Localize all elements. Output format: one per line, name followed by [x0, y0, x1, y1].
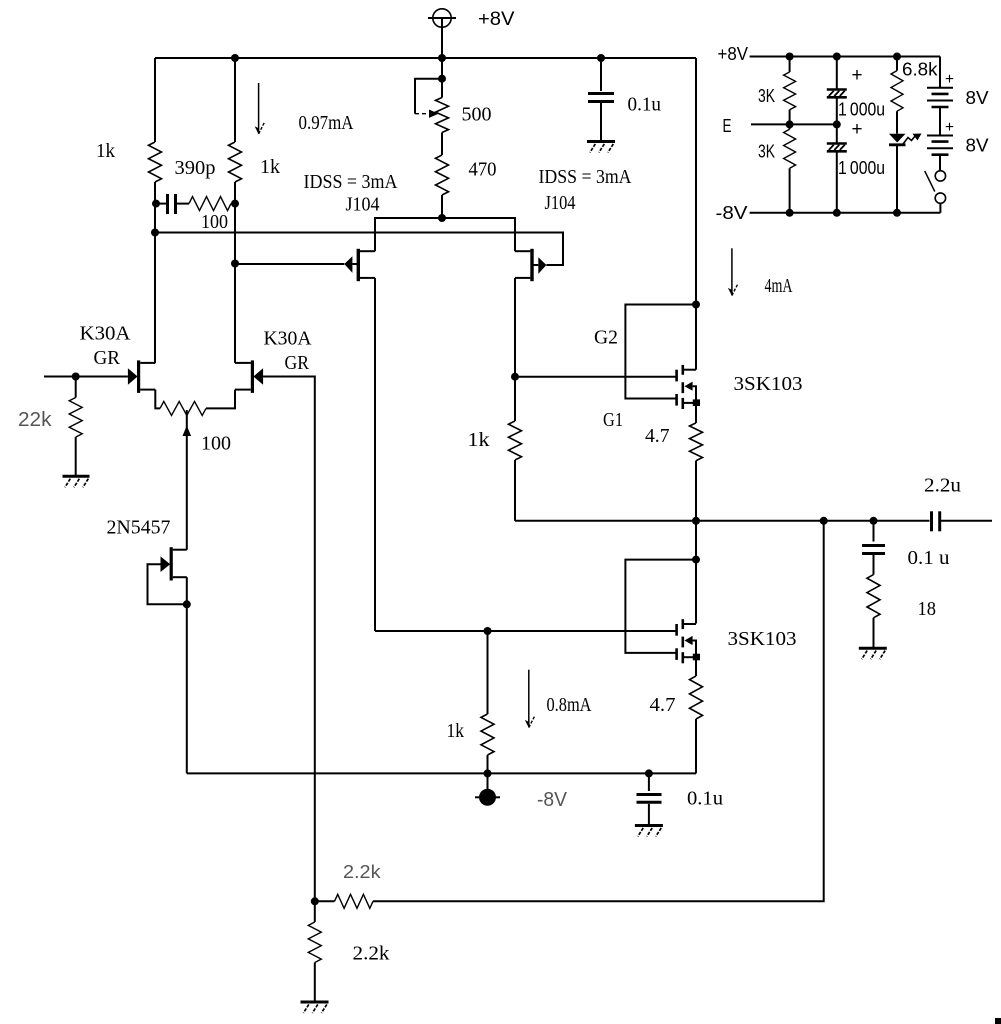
- node lower 3SK103 drain / G2 loop: [692, 556, 700, 564]
- wire pot top lead: [441, 58, 443, 98]
- svg-text:0.1u: 0.1u: [687, 788, 723, 810]
- resistor R 1k (second): [229, 142, 242, 182]
- svg-text:+: +: [945, 119, 954, 136]
- current source arrow (100 center): [183, 410, 192, 550]
- transistor 2N5457: [161, 547, 187, 604]
- wire 2N5457 gate-source tie: [148, 564, 187, 604]
- node right J104 drain / 1k / G1 line: [511, 373, 519, 381]
- wire left K30A source to 100: [155, 390, 160, 409]
- svg-text:18: 18: [918, 598, 937, 620]
- wire 1k R1 top lead: [154, 58, 156, 142]
- svg-text:3K: 3K: [758, 85, 775, 106]
- svg-text:1k: 1k: [447, 720, 465, 742]
- node top rail / 500 pot: [438, 54, 446, 62]
- wire 1k (mid) top lead: [514, 377, 516, 421]
- resistor 2.2k (to ground): [308, 922, 321, 963]
- wire E line: [751, 123, 837, 125]
- svg-text:8V: 8V: [966, 135, 990, 156]
- svg-text:4.7: 4.7: [645, 425, 670, 447]
- wire top rail +8V: [155, 57, 696, 59]
- battery 8V (upper): [927, 87, 953, 89]
- wire output rail: [515, 520, 930, 522]
- wire +8V supply rail: [750, 56, 940, 58]
- svg-text:3SK103: 3SK103: [734, 373, 803, 395]
- ground (2.2k): [301, 1001, 329, 1004]
- wire left column to K30A drain: [154, 233, 156, 363]
- wire 6.8k bottom lead: [896, 111, 898, 134]
- svg-text:1k: 1k: [468, 429, 490, 451]
- wire second column to K30A drain: [234, 264, 236, 363]
- wire 1000u upper bottom lead: [836, 97, 838, 124]
- svg-text:100: 100: [201, 211, 228, 233]
- svg-text:IDSS = 3mA: IDSS = 3mA: [304, 171, 398, 193]
- wire 1000u lower bottom lead: [836, 151, 838, 213]
- wire 0.1u cap top lead: [600, 58, 602, 91]
- node pot wiper loop: [438, 75, 446, 83]
- wire 1000u upper top lead: [836, 57, 838, 90]
- current arrow 0.97mA: [255, 83, 265, 134]
- node -8V rail / 0.1u lower: [645, 769, 653, 777]
- wire 4.7 lower bottom lead: [695, 719, 697, 773]
- svg-text:2.2k: 2.2k: [353, 943, 390, 965]
- node lower G1 line / 1k: [484, 627, 492, 635]
- wire 1k R1 bottom lead: [154, 182, 156, 204]
- wire 22k top lead: [75, 377, 77, 398]
- resistor 100 (series with 390p): [189, 197, 231, 211]
- svg-text:IDSS = 3mA: IDSS = 3mA: [539, 166, 632, 188]
- wire 2.2k gnd top lead: [314, 901, 316, 922]
- node top rail / 0.1u cap: [597, 54, 605, 62]
- wire output node down to lower 3SK103: [695, 521, 697, 624]
- switch (power): [925, 171, 946, 213]
- resistor 100 (source degeneration): [160, 401, 206, 415]
- wire -8V rail: [187, 772, 696, 774]
- wire 100 right lead: [231, 203, 235, 205]
- capacitor 2.2u (output): [932, 511, 993, 531]
- svg-text:0.1u: 0.1u: [628, 94, 662, 116]
- wire 4.7 upper bottom lead: [695, 461, 697, 521]
- svg-text:J104: J104: [545, 192, 576, 214]
- svg-text:K30A: K30A: [80, 323, 132, 345]
- svg-text:GR: GR: [94, 347, 121, 369]
- node 390p cap junction left: [152, 200, 160, 208]
- svg-text:0.8mA: 0.8mA: [547, 694, 592, 716]
- wire left input stub: [44, 376, 128, 378]
- ground (22k): [63, 475, 90, 478]
- node left column / gate line: [151, 229, 159, 237]
- wire between batteries: [939, 107, 941, 136]
- wire source-coupled line: [375, 218, 515, 251]
- resistor 1k (lower): [481, 714, 494, 755]
- capacitor 390p plates: [156, 194, 189, 214]
- svg-text:+: +: [852, 119, 863, 140]
- svg-text:8V: 8V: [966, 87, 990, 108]
- svg-text:0.1 u: 0.1 u: [908, 547, 950, 569]
- transistor J104 (left JFET): [344, 249, 375, 281]
- wire left column: [154, 204, 156, 233]
- wire 18 bottom lead: [873, 618, 875, 648]
- wire G2 loop (lower): [625, 560, 696, 653]
- wire G2 loop (upper): [625, 305, 696, 399]
- node 22k / left gate: [72, 373, 80, 381]
- node E line / 1000u junction: [833, 120, 841, 128]
- node +8V rail / 3K: [786, 53, 794, 61]
- capacitor 1000u (lower): [827, 142, 847, 145]
- svg-text:3K: 3K: [758, 141, 775, 162]
- svg-text:2.2u: 2.2u: [924, 475, 961, 497]
- resistor 4.7 (upper): [690, 423, 703, 461]
- wire 1k R2 top lead: [234, 58, 236, 142]
- svg-text:K30A: K30A: [264, 328, 313, 350]
- svg-text:470: 470: [469, 159, 497, 181]
- power terminal +8V: [428, 9, 456, 58]
- node +8V rail / 6.8k: [893, 53, 901, 61]
- svg-text:J104: J104: [346, 194, 380, 216]
- wire right gate to feedback column: [263, 377, 315, 902]
- node 390p network junction right: [231, 200, 239, 208]
- svg-text:2N5457: 2N5457: [107, 517, 171, 539]
- resistor 3K (upper): [784, 72, 796, 110]
- capacitor 0.1u (top): [588, 94, 614, 142]
- ground (0.1u lower): [635, 824, 663, 827]
- node 470 / source-coupled line: [438, 214, 446, 222]
- terminal -8V: [475, 773, 500, 805]
- wire 470 bottom lead: [441, 195, 443, 218]
- svg-text:E: E: [723, 115, 732, 136]
- wire 3K upper top lead: [789, 57, 791, 73]
- resistor 1k (mid): [509, 421, 522, 460]
- potentiometer 500: [436, 98, 449, 133]
- wire between 500 and 470: [441, 133, 443, 156]
- svg-text:GR: GR: [285, 352, 310, 374]
- node E line / 3K junction: [786, 120, 794, 128]
- wire upper 3SK103 source lead: [695, 403, 697, 423]
- LED indicator: [889, 134, 922, 213]
- svg-text:1k: 1k: [260, 156, 280, 178]
- wire pot wiper loop: [415, 79, 442, 114]
- resistor 470: [436, 155, 449, 195]
- wire 22k bottom lead: [75, 437, 77, 476]
- ground (18 resistor): [859, 647, 887, 650]
- resistor 22k: [69, 398, 82, 438]
- node -8V rail / 3K: [786, 209, 794, 217]
- wire -8V supply rail: [750, 212, 941, 214]
- node 2N5457 source/gate: [183, 600, 191, 608]
- node -8V rail / 1000u: [833, 209, 841, 217]
- resistor 3K (lower): [784, 129, 796, 168]
- svg-text:100: 100: [201, 433, 231, 455]
- wire second column: [234, 204, 236, 264]
- resistor 2.2k (feedback, horizontal): [335, 894, 374, 908]
- svg-text:22k: 22k: [18, 409, 53, 431]
- wire gate crossover line (to right J104): [155, 233, 563, 266]
- svg-text:4.7: 4.7: [650, 694, 676, 716]
- svg-text:1 000u: 1 000u: [838, 157, 885, 178]
- svg-text:-8V: -8V: [716, 202, 749, 223]
- wire G1 line (upper): [515, 376, 676, 378]
- svg-text:0.97mA: 0.97mA: [299, 112, 354, 134]
- node output rail / 4.7 upper: [692, 517, 700, 525]
- wire 0.1u-18 branch top: [873, 521, 875, 542]
- svg-text:3SK103: 3SK103: [728, 628, 797, 650]
- svg-text:390p: 390p: [175, 157, 216, 179]
- ground (0.1u top cap): [587, 140, 615, 143]
- svg-text:+: +: [945, 71, 954, 88]
- svg-text:1k: 1k: [96, 140, 115, 162]
- resistor 6.8k: [891, 71, 903, 112]
- transistor J104 (right JFET): [515, 249, 546, 281]
- wire 6.8k top lead: [896, 57, 898, 71]
- wire 3K upper bottom lead: [789, 110, 791, 125]
- svg-text:G1: G1: [603, 409, 623, 431]
- wire 2.2k feedback lead: [315, 900, 335, 902]
- node top rail / left 1k column: [231, 54, 239, 62]
- wire cascode drain feed: [695, 58, 697, 305]
- resistor R 1k (left): [149, 142, 162, 182]
- current arrow 0.8mA: [525, 670, 535, 728]
- transistor K30A (right JFET): [235, 360, 263, 393]
- wire battery to switch: [939, 155, 941, 171]
- wire 1k mid bottom lead: [514, 460, 516, 521]
- wire 1000u lower top lead: [836, 124, 838, 143]
- node second column / J104 gate line: [231, 260, 239, 268]
- node upper 3SK103 drain / G2 loop: [692, 301, 700, 309]
- svg-text:1 000u: 1 000u: [838, 99, 885, 120]
- capacitor 0.1u (lower): [637, 795, 662, 826]
- wire 1k lower bottom lead: [487, 755, 489, 773]
- capacitor 1000u (upper): [827, 88, 847, 91]
- wire feedback line to output: [373, 521, 824, 902]
- wire battery column top: [939, 57, 941, 88]
- transistor 3SK103 (upper dual-gate MOSFET): [677, 305, 700, 410]
- node output rail / 0.1u-18: [870, 517, 878, 525]
- wire 3K lower leads: [789, 124, 791, 129]
- node feedback / 2.2k junction: [311, 897, 319, 905]
- wire 1k R2 bottom lead: [234, 182, 236, 204]
- wire 2N5457 source down to -8V rail: [186, 604, 188, 773]
- wire G1 line (lower): [375, 630, 676, 632]
- svg-text:6.8k: 6.8k: [902, 59, 938, 80]
- wire 0.1u lower top lead: [648, 773, 650, 791]
- battery 8V (lower): [927, 135, 953, 137]
- node +8V rail / 1000u: [833, 53, 841, 61]
- svg-text:-8V: -8V: [537, 789, 568, 811]
- wire right K30A source to 100: [206, 390, 235, 409]
- svg-text:G2: G2: [594, 327, 618, 349]
- node -8V rail / LED: [893, 209, 901, 217]
- wire 1k lower top lead: [487, 631, 489, 714]
- corner mark: [995, 1018, 1001, 1024]
- pot wiper dashed arrow: [415, 113, 431, 115]
- wire left J104 gate line: [235, 263, 344, 265]
- resistor 18: [867, 575, 880, 618]
- svg-text:+8V: +8V: [718, 43, 749, 64]
- wire right J104 drain down: [514, 278, 516, 377]
- svg-text:4mA: 4mA: [765, 275, 793, 297]
- svg-text:+8V: +8V: [478, 9, 515, 30]
- svg-text:2.2k: 2.2k: [343, 862, 382, 882]
- svg-text:+: +: [852, 65, 863, 86]
- wire 2.2k gnd bottom lead: [314, 963, 316, 1003]
- node -8V rail / 1k lower: [484, 769, 492, 777]
- capacitor 0.1 u (output filter): [862, 546, 885, 575]
- node output rail / feedback: [820, 517, 828, 525]
- resistor 4.7 (lower): [690, 676, 703, 719]
- transistor K30A (left JFET): [128, 360, 155, 393]
- current arrow 4mA: [728, 248, 738, 296]
- wire lower 3SK103 source lead: [695, 657, 697, 676]
- transistor 3SK103 (lower dual-gate MOSFET): [677, 619, 700, 663]
- svg-text:500: 500: [462, 104, 492, 126]
- wire left J104 drain down: [374, 278, 376, 631]
